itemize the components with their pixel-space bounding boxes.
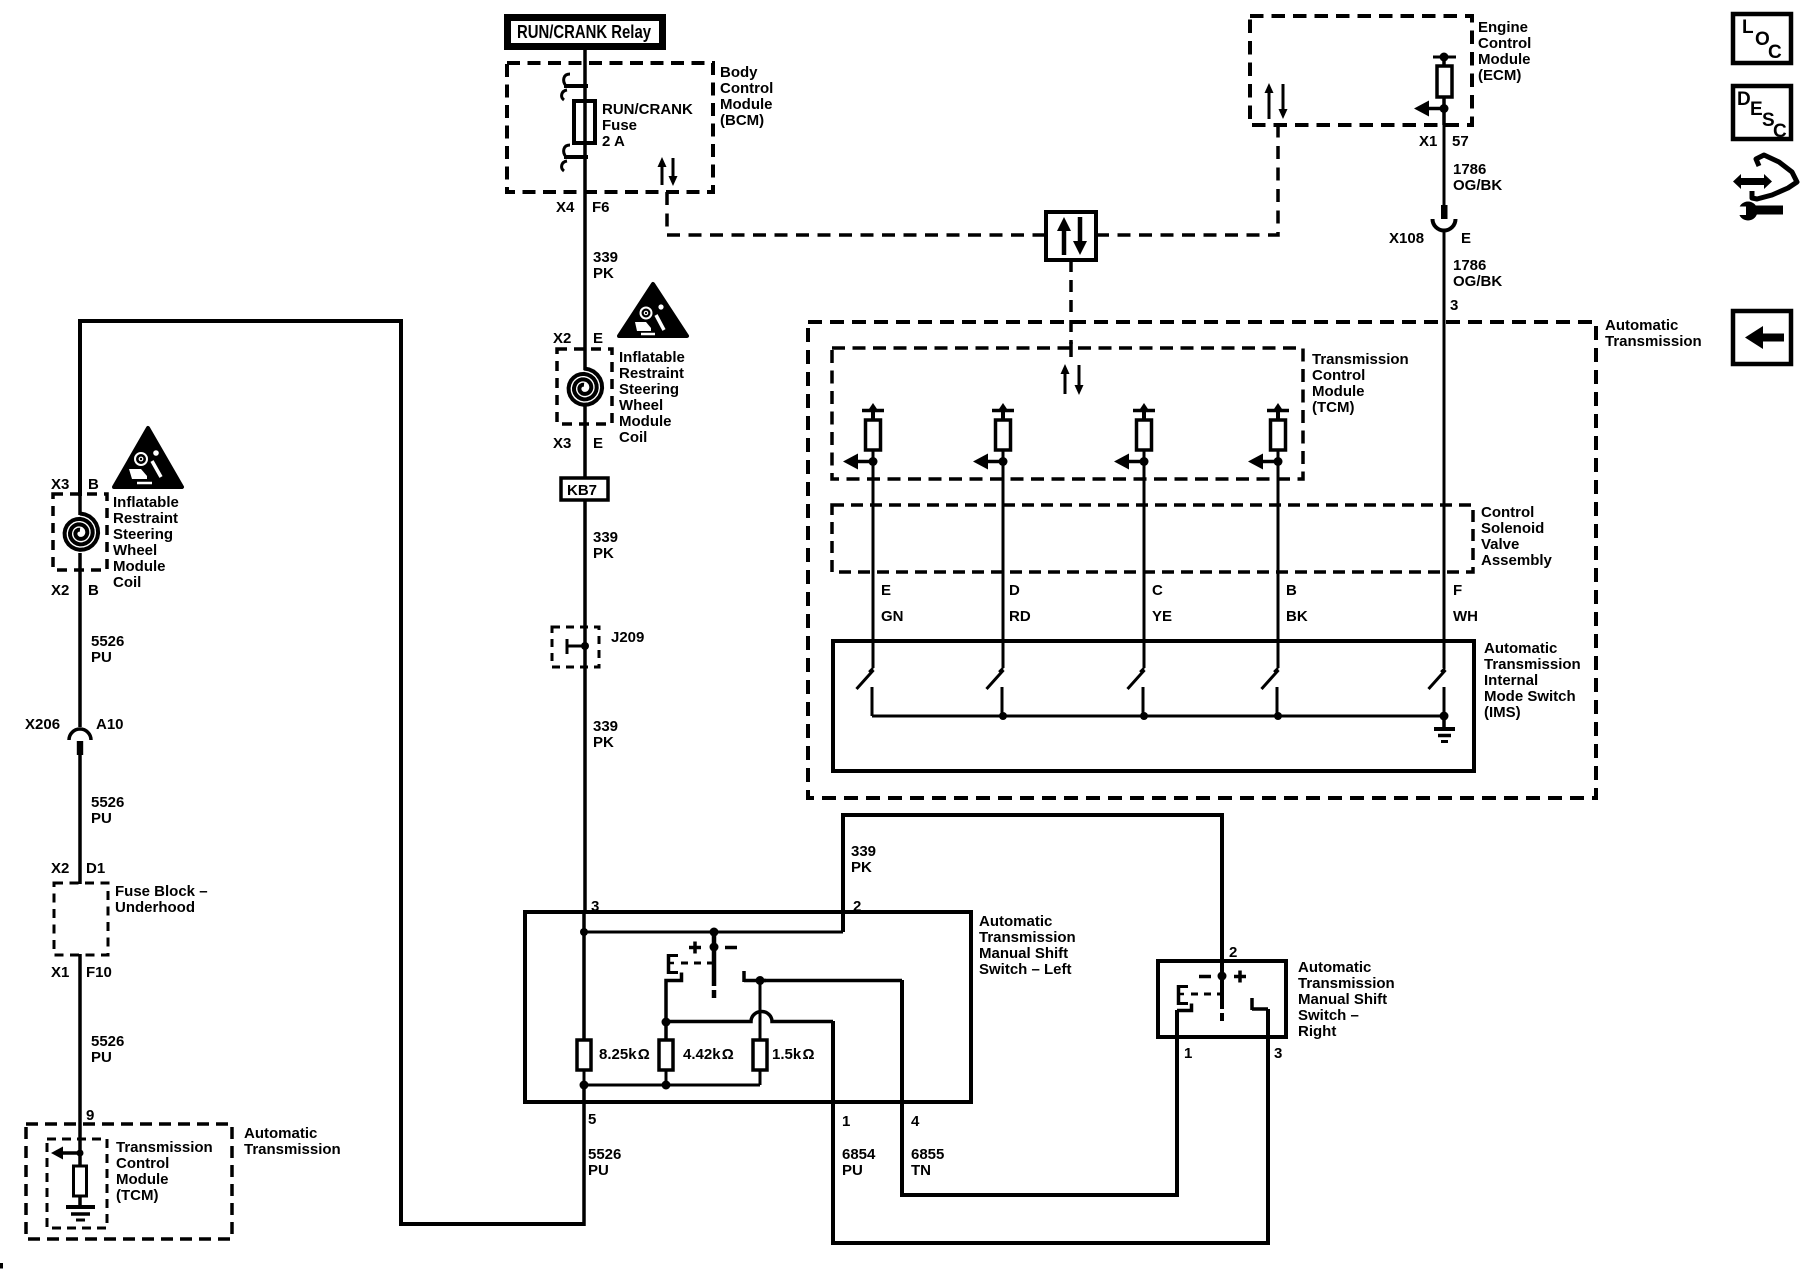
left switch pole with polarity [689,932,737,998]
svg-text:Automatic: Automatic [1298,959,1371,976]
svg-text:Transmission: Transmission [244,1141,341,1158]
svg-text:57: 57 [1452,133,1469,150]
ECM output arrow [1442,97,1446,125]
wire F down to IMS [1443,322,1446,668]
wire right throw to pin 4 [760,979,902,983]
svg-text:1786: 1786 [1453,161,1486,178]
fuse block underhood dashed box [54,883,108,955]
IMS ground [1442,716,1446,729]
right switch linkage dashes [1191,993,1222,996]
fuse clip upper [564,84,588,88]
svg-text:Control: Control [1312,367,1365,384]
wire label 5526 PU (third) [91,1033,124,1066]
IMS switch 2 (D) [987,668,1004,716]
svg-text:X1: X1 [51,964,69,981]
svg-text:E: E [593,330,603,347]
svg-text:D1: D1 [86,860,105,877]
svg-text:B: B [88,476,99,493]
IMS switch 3 (C) [1128,668,1145,716]
wire relay box to BCM [583,50,587,63]
svg-text:Transmission: Transmission [1605,333,1702,350]
svg-text:Transmission: Transmission [116,1139,213,1156]
resistor 8.25k [577,1040,591,1070]
inflatable restraint steering wheel module coil (center) dashed box [557,349,612,424]
svg-text:F: F [1453,582,1462,599]
wire solenoid C down to IMS [1143,461,1146,668]
left switch linkage dashes [681,962,714,965]
svg-text:Wheel: Wheel [113,542,157,559]
pin 3 label (left switch) [591,898,599,915]
svg-text:Switch – Left: Switch – Left [979,961,1072,978]
node X4 F6 labels [556,199,610,216]
svg-text:PU: PU [91,649,112,666]
resistor 1.5k [753,1040,767,1070]
ECM label [1478,19,1531,84]
wire pin 1 (6854 PU) to right switch pin 3 [833,1009,1268,1243]
svg-text:Module: Module [1478,51,1531,68]
svg-text:Internal: Internal [1484,672,1538,689]
transmission control module TCM dashed box (bottom left) [47,1139,107,1228]
svg-text:Manual Shift: Manual Shift [979,945,1068,962]
svg-text:X2: X2 [51,860,69,877]
svg-text:PU: PU [91,1049,112,1066]
automatic transmission dashed box (bottom left) [26,1124,232,1239]
svg-text:2 A: 2 A [602,133,625,150]
svg-text:PU: PU [842,1162,863,1179]
left switch E-pole wire to junction [666,973,682,1023]
wire pin5 5526 PU vertical [582,1085,586,1226]
svg-text:C: C [1152,582,1163,599]
automatic transmission label (bottom left) [244,1125,341,1158]
svg-text:Coil: Coil [113,574,141,591]
wire label 1786 OG/BK (lower) [1453,257,1502,290]
svg-text:Transmission: Transmission [979,929,1076,946]
svg-text:F10: F10 [86,964,112,981]
wire label 339 PK (first) [593,249,618,282]
svg-text:1: 1 [842,1113,850,1130]
svg-text:Solenoid: Solenoid [1481,520,1544,537]
svg-text:Underhood: Underhood [115,899,195,916]
svg-text:X2: X2 [553,330,571,347]
svg-text:Steering: Steering [619,381,679,398]
wire solenoid E down to IMS [872,461,875,668]
left switch right throw bracket [744,971,766,985]
wire J209 to shift switch [583,667,587,912]
svg-text:5526: 5526 [91,794,124,811]
node X1 57 labels [1419,133,1469,150]
manual shift switch left label [979,913,1076,978]
svg-text:Inflatable: Inflatable [113,494,179,511]
inline connector X206 A10 [69,729,91,740]
body control module BCM dashed box [507,63,713,192]
wire coil to KB7 [583,406,587,478]
fuse block underhood label [115,883,208,916]
wire 339 PK feed to right switch [843,815,1222,961]
svg-text:339: 339 [851,843,876,860]
svg-text:Fuse Block –: Fuse Block – [115,883,208,900]
svg-text:RUN/CRANK: RUN/CRANK [602,101,693,118]
inflatable restraint steering wheel module coil (left) dashed box [53,494,107,570]
wire label 5526 PU (second) [91,794,124,827]
svg-text:TN: TN [911,1162,931,1179]
svg-text:(IMS): (IMS) [1484,704,1521,721]
wire label 6854 PU [842,1146,876,1179]
wire solenoid D down to IMS [1002,461,1005,668]
svg-text:D: D [1009,582,1020,599]
inflatable restraint label (left) [113,494,179,591]
ECM serial data double arrow [1265,83,1288,119]
svg-text:3: 3 [1450,297,1458,314]
IMS switch 4 (B) [1262,668,1279,716]
inflatable restraint label (center) [619,349,685,446]
wire KB7 to J209 [583,500,587,667]
svg-text:E: E [1461,230,1471,247]
wire X108 to AT box [1443,231,1446,322]
wire left column fuse block to TCM [78,954,82,1166]
svg-text:E: E [593,435,603,452]
service info icon (arrows and wrench) [1733,155,1797,221]
svg-text:Automatic: Automatic [1605,317,1678,334]
svg-text:9: 9 [86,1107,94,1124]
wire E-pole to pin 1 with hop over [666,1012,833,1022]
wire label 339 PK (second) [593,529,618,562]
svg-text:1786: 1786 [1453,257,1486,274]
solenoid driver fuse E (x=873) [843,403,884,470]
svg-text:BK: BK [1286,608,1308,625]
svg-text:Module: Module [1312,383,1365,400]
svg-text:1: 1 [1184,1045,1192,1062]
wire pin3 down to 8.25k resistor [582,912,586,1040]
solenoid driver fuse C (x=1144) [1114,403,1155,470]
svg-text:X3: X3 [553,435,571,452]
serial data junction box with double arrow [1046,212,1096,260]
svg-text:Control: Control [116,1155,169,1172]
resistor 4.42k [659,1040,673,1070]
splice J209 [552,627,599,667]
IMS common bus [872,715,1444,718]
BCM serial data double arrow [658,157,678,186]
DESC icon [1733,86,1791,142]
svg-text:J209: J209 [611,629,644,646]
wire ECM to X108 [1443,125,1446,205]
svg-text:YE: YE [1152,608,1172,625]
svg-text:Restraint: Restraint [619,365,684,382]
wire label 339 PK (third) [593,718,618,751]
IMS switch 5 (F) [1429,668,1446,716]
control solenoid valve assembly dashed box [832,505,1473,572]
svg-text:PU: PU [588,1162,609,1179]
coil spiral (center) [569,369,603,405]
airbag SIR caution triangle (center) [619,284,687,336]
right switch right throw bracket to pin 3 [1252,998,1268,1010]
svg-text:PK: PK [593,545,614,562]
ground symbol (TCM bottom left) [66,1205,95,1209]
svg-text:Fuse: Fuse [602,117,637,134]
svg-text:X1: X1 [1419,133,1437,150]
svg-text:X108: X108 [1389,230,1424,247]
svg-text:6855: 6855 [911,1146,944,1163]
pin 2 label (right switch) [1229,944,1237,961]
svg-text:Automatic: Automatic [244,1125,317,1142]
svg-text:3: 3 [1274,1045,1282,1062]
svg-text:X2: X2 [51,582,69,599]
svg-text:Control: Control [1478,35,1531,52]
svg-text:PK: PK [851,859,872,876]
pin 1 label (left switch) [842,1113,850,1130]
TCM output arrow (bottom left) [51,1147,63,1160]
svg-text:Mode Switch: Mode Switch [1484,688,1576,705]
serial data dashed line down to TCM [1069,260,1073,344]
svg-text:Switch –: Switch – [1298,1007,1359,1024]
wire X3 into coil [78,494,82,515]
svg-text:C: C [1768,42,1782,63]
svg-text:F6: F6 [592,199,610,216]
wire 339 PK BCM to coil [583,192,587,370]
svg-text:X4: X4 [556,199,575,216]
manual shift switch right box [1158,961,1286,1037]
svg-text:WH: WH [1453,608,1478,625]
pin 4 label (left switch) [911,1113,920,1130]
svg-text:Steering: Steering [113,526,173,543]
coil spiral (left) [65,514,99,550]
wire solenoid B down to IMS [1277,461,1280,668]
svg-text:6854: 6854 [842,1146,876,1163]
manual shift switch left box [525,912,971,1102]
resistor bottom bus [584,1084,760,1087]
svg-text:Restraint: Restraint [113,510,178,527]
svg-text:E: E [881,582,891,599]
wire label 1786 OG/BK (upper) [1453,161,1502,194]
svg-text:5: 5 [588,1111,596,1128]
svg-text:Body: Body [720,64,758,81]
IMS solid box [833,641,1474,771]
svg-text:OG/BK: OG/BK [1453,273,1502,290]
svg-text:Inflatable: Inflatable [619,349,685,366]
wire label 339 PK (switch feed) [851,843,876,876]
RUN/CRANK Relay title box [504,14,666,50]
svg-text:Module: Module [720,96,773,113]
control solenoid valve assembly label [1481,504,1553,569]
wire color labels GN RD YE BK WH [881,608,1478,625]
node X2 B labels [51,582,99,599]
svg-text:Wheel: Wheel [619,397,663,414]
svg-text:PK: PK [593,734,614,751]
pin 5 label [588,1111,596,1128]
svg-text:Automatic: Automatic [979,913,1052,930]
svg-text:Automatic: Automatic [1484,640,1557,657]
svg-text:RUN/CRANK Relay: RUN/CRANK Relay [517,22,651,42]
solenoid driver fuse B (x=1278) [1248,403,1289,470]
serial data dashed line ECM side [1096,126,1278,235]
svg-text:KB7: KB7 [567,482,597,499]
svg-text:B: B [88,582,99,599]
svg-text:X206: X206 [25,716,60,733]
TCM internal fuse (bottom left) [74,1166,87,1196]
page corner mark [0,1263,3,1269]
wire label 6855 TN [911,1146,944,1179]
svg-text:(TCM): (TCM) [116,1187,158,1204]
wire pin 4 (6855 TN) to right switch pin 1 [902,980,1177,1195]
wire 5526 PU routing loop (pin5 of left shift switch around left side) [80,321,585,1224]
svg-text:Valve: Valve [1481,536,1519,553]
node X3 B labels [51,476,99,493]
svg-text:PK: PK [593,265,614,282]
pin 3 label (solenoid F wire) [1450,297,1458,314]
TCM label (bottom left) [116,1139,213,1204]
pin 3 label (right switch) [1274,1045,1282,1062]
svg-text:5526: 5526 [588,1146,621,1163]
automatic transmission label (top right) [1605,317,1702,350]
pin 1 label (right switch) [1184,1045,1192,1062]
right switch pole with polarity [1199,961,1246,1021]
pin letter labels E D C B F [881,582,1462,599]
splice pack KB7 box [561,478,608,500]
node X3 E labels (center) [553,435,603,452]
svg-text:Control: Control [720,80,773,97]
RUN/CRANK fuse 2A [574,101,595,143]
svg-text:D: D [1737,89,1751,110]
wire left column X2B to X206 [78,553,82,727]
svg-text:5526: 5526 [91,1033,124,1050]
serial data dashed line BCM side [667,192,1046,235]
LOC icon [1733,14,1791,63]
airbag SIR caution triangle (left) [114,428,182,487]
svg-text:Transmission: Transmission [1312,351,1409,368]
IMS label [1484,640,1581,721]
svg-text:5526: 5526 [91,633,124,650]
svg-text:Module: Module [619,413,672,430]
BCM label [720,64,773,129]
svg-text:4.42k Ω: 4.42k Ω [683,1046,734,1063]
left switch internal bus [584,931,843,934]
inline connector X108 E [1441,205,1448,219]
svg-text:(ECM): (ECM) [1478,67,1521,84]
node X2 E labels (center) [553,330,603,347]
svg-text:RD: RD [1009,608,1031,625]
svg-text:4: 4 [911,1113,920,1130]
svg-text:Transmission: Transmission [1298,975,1395,992]
right switch common E [1177,985,1188,1005]
svg-text:X3: X3 [51,476,69,493]
svg-text:(TCM): (TCM) [1312,399,1354,416]
left switch common E [667,954,678,974]
svg-text:Assembly: Assembly [1481,552,1553,569]
node X2 D1 labels [51,860,105,877]
transmission control module TCM dashed box [832,348,1303,479]
svg-text:OG/BK: OG/BK [1453,177,1502,194]
svg-text:(BCM): (BCM) [720,112,764,129]
svg-text:8.25k Ω: 8.25k Ω [599,1046,650,1063]
node X1 F10 labels [51,964,112,981]
fuse clip lower [564,155,588,159]
manual shift switch right label [1298,959,1395,1040]
svg-text:339: 339 [593,529,618,546]
right switch E-pole step to pin 1 [1177,1004,1192,1011]
engine control module ECM dashed box [1250,16,1472,125]
svg-text:A10: A10 [96,716,124,733]
svg-text:Transmission: Transmission [1484,656,1581,673]
svg-text:Control: Control [1481,504,1534,521]
TCM serial data double arrow [1061,364,1084,395]
wire left column X206 to fuse block [78,754,82,884]
svg-text:PU: PU [91,810,112,827]
svg-text:339: 339 [593,249,618,266]
svg-text:L: L [1742,17,1754,38]
wire label 5526 PU (upper) [91,633,124,666]
svg-text:1.5k Ω: 1.5k Ω [772,1046,814,1063]
svg-text:Coil: Coil [619,429,647,446]
svg-text:Engine: Engine [1478,19,1528,36]
wire through BCM [583,63,587,192]
svg-text:GN: GN [881,608,904,625]
automatic transmission outer dashed box [808,322,1596,798]
svg-text:Module: Module [113,558,166,575]
TCM label [1312,351,1409,416]
wire label 5526 PU (pin5) [588,1146,621,1179]
IMS switch 1 (E) [857,668,874,716]
solenoid driver fuse D (x=1003) [973,403,1014,470]
svg-text:Right: Right [1298,1023,1336,1040]
pin 2 label (left switch) [853,898,861,915]
svg-text:339: 339 [593,718,618,735]
svg-text:2: 2 [1229,944,1237,961]
back arrow icon [1733,311,1791,364]
pin 9 label [86,1107,94,1124]
svg-text:C: C [1773,121,1787,142]
svg-text:Module: Module [116,1171,169,1188]
svg-text:E: E [1750,99,1763,120]
svg-text:B: B [1286,582,1297,599]
svg-text:Manual Shift: Manual Shift [1298,991,1387,1008]
ECM internal fuse [1433,56,1456,59]
